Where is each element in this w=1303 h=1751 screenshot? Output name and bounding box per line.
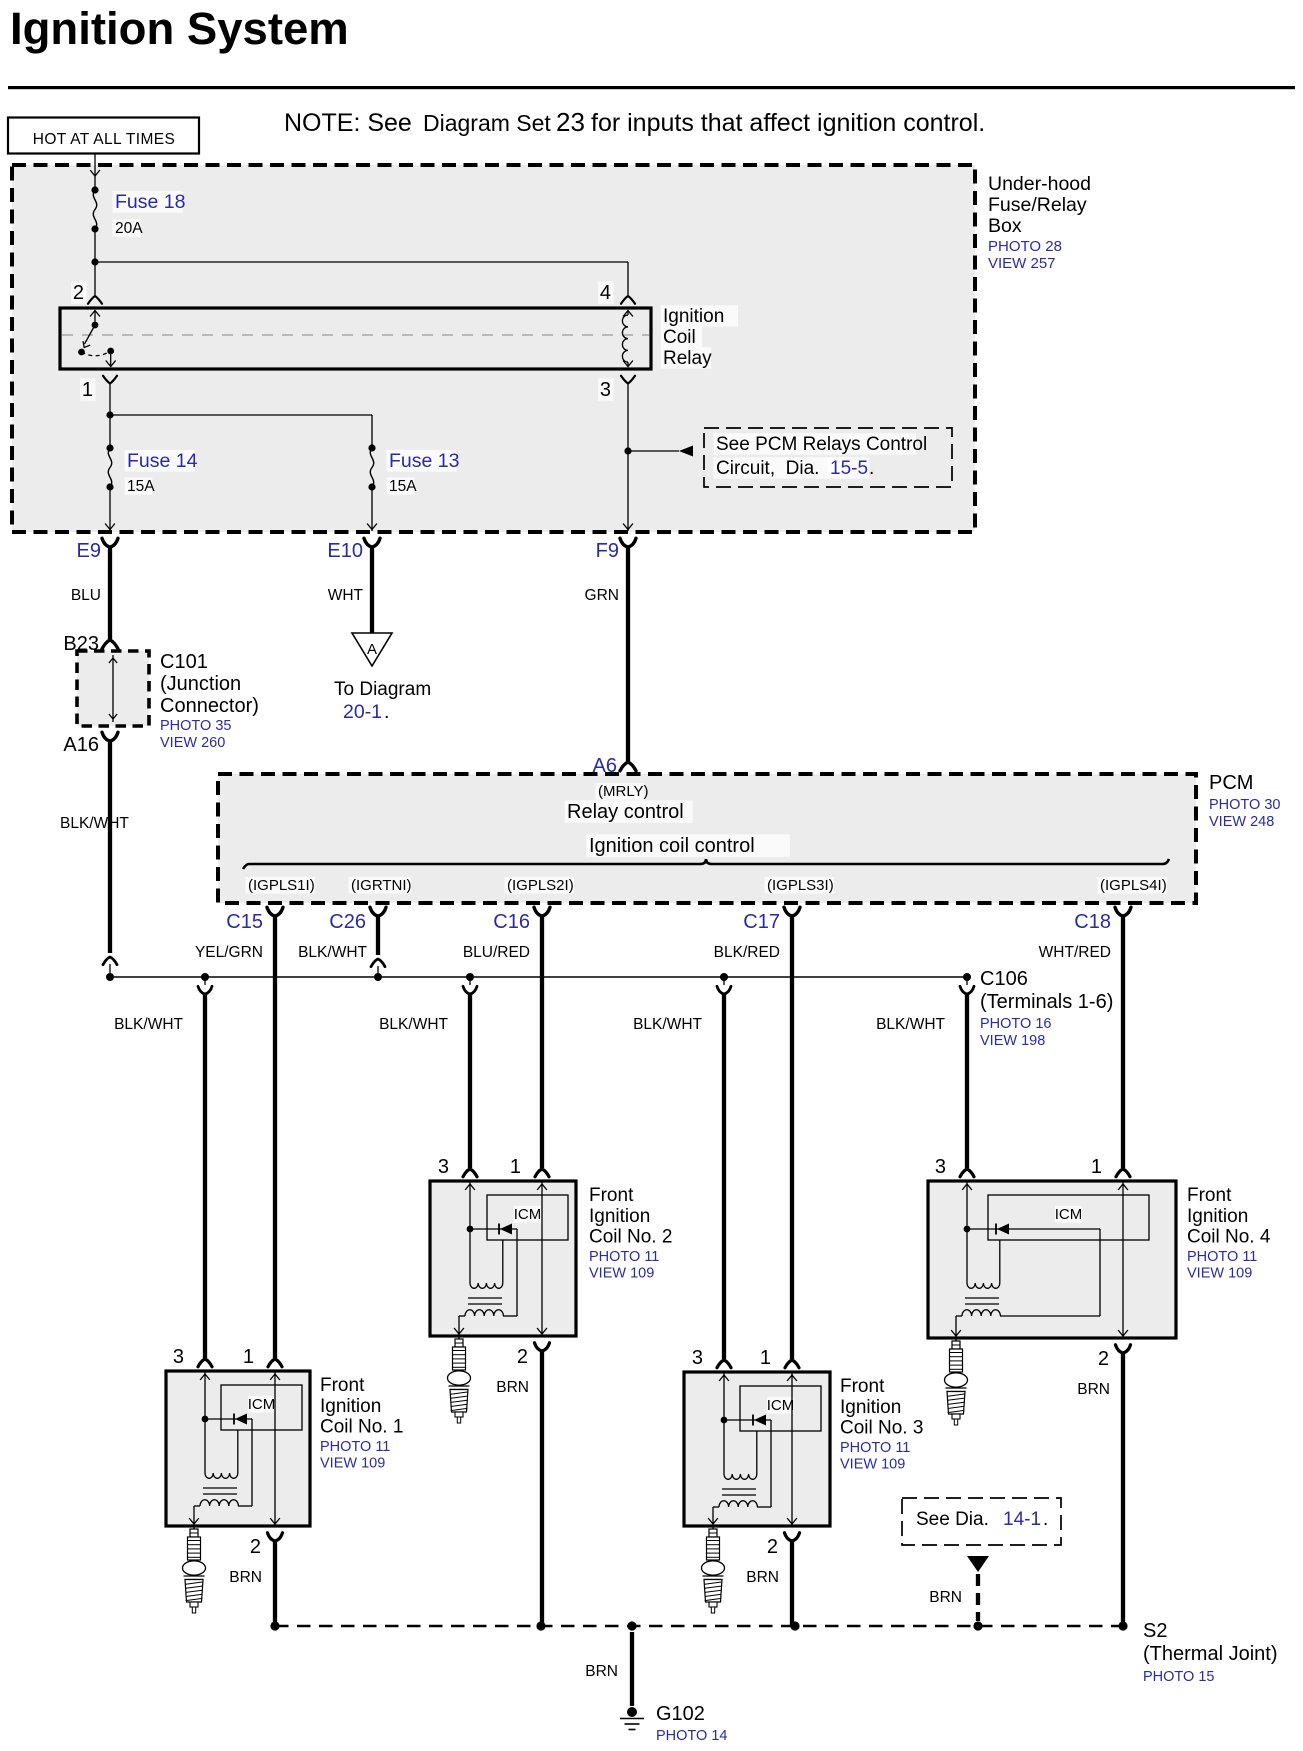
svg-text:Fuse 13: Fuse 13 bbox=[389, 450, 459, 472]
spark plug P3 bbox=[702, 1526, 725, 1613]
coil 1 transformer core bbox=[203, 1488, 237, 1494]
coil 2 photo/view reference bbox=[589, 1249, 659, 1282]
svg-text:VIEW 109: VIEW 109 bbox=[589, 1266, 654, 1282]
bus junction bbox=[374, 973, 382, 981]
fuse 18 label bbox=[113, 191, 186, 237]
to diagram 20-1 label bbox=[334, 679, 431, 723]
relay pin 3 connector bbox=[621, 376, 635, 384]
relay pin 3 label bbox=[598, 378, 613, 401]
svg-text:VIEW 260: VIEW 260 bbox=[160, 735, 225, 751]
coil 2 pin 3 label bbox=[438, 1156, 449, 1178]
coil 4 pin 1 label bbox=[1091, 1156, 1102, 1178]
svg-text:(IGPLS3I): (IGPLS3I) bbox=[767, 877, 834, 894]
bus junction bbox=[963, 973, 971, 981]
coil 3 photo/view reference bbox=[840, 1440, 910, 1473]
coil 2 name label bbox=[589, 1185, 672, 1248]
svg-text:C18: C18 bbox=[1074, 911, 1111, 933]
ignition coil control bus line bbox=[243, 859, 1169, 869]
svg-text:VIEW 257: VIEW 257 bbox=[988, 255, 1056, 272]
spark plug P1 bbox=[183, 1526, 206, 1613]
wire label GRN bbox=[585, 587, 619, 604]
wire label BRN (G102) bbox=[585, 1663, 618, 1680]
svg-text:A16: A16 bbox=[63, 734, 99, 756]
svg-text:Ignition: Ignition bbox=[840, 1397, 901, 1418]
PCM pin function label (IGRTNI) bbox=[349, 877, 412, 894]
PCM pin function label (IGPLS3I) bbox=[765, 877, 834, 894]
coil 4 pin 2 connector bbox=[1116, 1345, 1131, 1353]
wire label BLK/WHT (branch 4) bbox=[876, 1016, 945, 1033]
coil 3 pin 3 label bbox=[692, 1347, 703, 1369]
ground G102 label bbox=[656, 1703, 705, 1725]
svg-text:PHOTO 11: PHOTO 11 bbox=[1187, 1249, 1257, 1265]
relay switch bbox=[78, 311, 116, 368]
ground G102 symbol bbox=[620, 1707, 644, 1730]
wire label WHT bbox=[328, 587, 364, 604]
svg-text:ICM: ICM bbox=[767, 1397, 795, 1414]
svg-text:BLU/RED: BLU/RED bbox=[463, 944, 530, 961]
svg-text:E10: E10 bbox=[327, 540, 363, 562]
svg-text:(IGPLS4I): (IGPLS4I) bbox=[1100, 877, 1167, 894]
thermal bus junction bbox=[973, 1621, 982, 1630]
thermal bus junction bbox=[536, 1621, 545, 1630]
svg-text:YEL/GRN: YEL/GRN bbox=[195, 944, 263, 961]
wire E10 (WHT) bbox=[370, 547, 374, 633]
svg-text:VIEW 109: VIEW 109 bbox=[840, 1457, 905, 1473]
svg-text:VIEW 198: VIEW 198 bbox=[980, 1033, 1045, 1049]
svg-text:2: 2 bbox=[250, 1536, 261, 1558]
front ignition coil No. 2 box bbox=[430, 1181, 576, 1336]
thermal bus junction bbox=[627, 1621, 636, 1630]
svg-text:3: 3 bbox=[438, 1156, 449, 1178]
relay pin 4 connector bbox=[621, 296, 635, 304]
PCM label bbox=[1209, 772, 1253, 794]
svg-text:F9: F9 bbox=[596, 540, 619, 562]
svg-text:(MRLY): (MRLY) bbox=[598, 783, 649, 800]
wire C17 to coil 3 pin 1 (BLK/RED) bbox=[790, 916, 794, 1359]
wire BRN from coil 4 pin 2 bbox=[1121, 1353, 1125, 1626]
svg-text:Relay: Relay bbox=[663, 348, 712, 369]
wire label BLK/WHT (branch 2) bbox=[379, 1016, 448, 1033]
svg-text:BLU: BLU bbox=[71, 587, 101, 604]
svg-text:Coil: Coil bbox=[663, 327, 696, 348]
bus junction bbox=[201, 973, 209, 981]
ICM module U4 bbox=[988, 1195, 1149, 1240]
C101 label bbox=[160, 651, 259, 717]
svg-text:PHOTO 11: PHOTO 11 bbox=[840, 1440, 910, 1456]
svg-text:PHOTO 11: PHOTO 11 bbox=[589, 1249, 659, 1265]
svg-text:4: 4 bbox=[600, 282, 611, 304]
svg-text:Under-hood: Under-hood bbox=[988, 173, 1091, 195]
wire label BRN (coil 4) bbox=[1077, 1381, 1110, 1398]
coil 4 internal wire: pin 3 to ICM junction bbox=[962, 1181, 972, 1232]
coil 2 transformer core bbox=[468, 1298, 502, 1304]
svg-text:VIEW 248: VIEW 248 bbox=[1209, 814, 1274, 830]
front ignition coil No. 4 box bbox=[928, 1181, 1176, 1338]
relay internal link (dashed) bbox=[62, 334, 649, 336]
wire relay pin 1 to fuse 14 bbox=[106, 384, 113, 449]
svg-text:Front: Front bbox=[1187, 1185, 1232, 1206]
wire label BLU bbox=[71, 587, 101, 604]
coil 3 primary winding bbox=[724, 1420, 757, 1479]
G102 photo reference bbox=[656, 1728, 727, 1744]
svg-text:for inputs that affect ignitio: for inputs that affect ignition control. bbox=[591, 109, 985, 137]
connector F9 bbox=[596, 538, 636, 562]
svg-text:BLK/WHT: BLK/WHT bbox=[298, 944, 367, 961]
coil 1 pin 3 label bbox=[173, 1346, 184, 1368]
wire relay pin 3 to F9 bbox=[623, 384, 633, 532]
coil 1 name label bbox=[320, 1375, 403, 1438]
svg-text:Coil No. 1: Coil No. 1 bbox=[320, 1417, 403, 1438]
coil 2 pin 1 connector bbox=[535, 1169, 549, 1177]
wire label BLK/WHT bbox=[298, 944, 367, 961]
svg-text:3: 3 bbox=[600, 379, 611, 401]
coil 2 pin 3 connector bbox=[463, 1169, 477, 1177]
diode D3 bbox=[724, 1415, 771, 1426]
svg-text:Ignition: Ignition bbox=[663, 306, 724, 327]
wire A16 to coil ground bus (BLK/WHT) bbox=[108, 741, 112, 953]
svg-text:VIEW 109: VIEW 109 bbox=[1187, 1266, 1252, 1282]
wire BRN from coil 1 pin 2 bbox=[273, 1541, 277, 1626]
wire BLK/WHT to coil 1 pin 3 bbox=[203, 994, 207, 1358]
ignition coil control label bbox=[587, 834, 790, 857]
svg-text:Ignition coil control: Ignition coil control bbox=[589, 835, 755, 857]
C106 photo/view reference bbox=[980, 1016, 1051, 1049]
see dia 14-1 note box bbox=[902, 1498, 1061, 1545]
wire F9 to A6 (GRN) bbox=[626, 547, 630, 762]
svg-text:VIEW 109: VIEW 109 bbox=[320, 1456, 385, 1472]
title underline bar bbox=[8, 86, 1295, 89]
relay pin 4 label bbox=[598, 281, 613, 304]
wire label YEL/GRN bbox=[195, 944, 263, 961]
coil 3 pin 1 label bbox=[760, 1347, 771, 1369]
svg-text:Coil No. 2: Coil No. 2 bbox=[589, 1227, 672, 1248]
svg-text:Fuse 18: Fuse 18 bbox=[115, 191, 185, 213]
connector A16 bbox=[63, 732, 118, 756]
fuse 14 label bbox=[125, 450, 198, 495]
coil 1 pin 1 connector bbox=[268, 1359, 282, 1367]
coil 4 pin 1 connector bbox=[1116, 1169, 1130, 1177]
wire BRN from coil 2 pin 2 bbox=[540, 1351, 544, 1626]
coil 3 name label bbox=[840, 1376, 923, 1439]
wire BRN from coil 3 pin 2 bbox=[790, 1541, 794, 1626]
svg-text:BLK/WHT: BLK/WHT bbox=[114, 1016, 183, 1033]
svg-text:(Terminals 1-6): (Terminals 1-6) bbox=[980, 991, 1113, 1013]
svg-text:(IGPLS2I): (IGPLS2I) bbox=[507, 877, 574, 894]
under-hood fuse/relay box bbox=[12, 165, 975, 532]
wire E9 to B23 (BLU) bbox=[108, 547, 112, 640]
svg-text:Front: Front bbox=[320, 1375, 365, 1396]
coil 3 pin 2 connector bbox=[785, 1533, 800, 1541]
fuse 18 (20A) bbox=[91, 186, 98, 232]
svg-text:C101: C101 bbox=[160, 651, 208, 673]
connector E9 bbox=[77, 538, 118, 562]
svg-text:Front: Front bbox=[589, 1185, 634, 1206]
under-hood fuse/relay box label bbox=[988, 173, 1091, 237]
coil 2 pin 2 connector bbox=[535, 1343, 550, 1351]
svg-text:15-5: 15-5 bbox=[830, 458, 868, 479]
connector B23 bbox=[63, 633, 118, 655]
svg-text:Circuit, Dia.: Circuit, Dia. bbox=[716, 458, 819, 479]
svg-text:3: 3 bbox=[935, 1156, 946, 1178]
svg-text:.: . bbox=[1043, 1509, 1048, 1530]
svg-text:PHOTO 16: PHOTO 16 bbox=[980, 1016, 1051, 1032]
svg-text:PCM: PCM bbox=[1209, 772, 1253, 794]
coil 4 primary winding bbox=[967, 1229, 1000, 1288]
PCM box bbox=[218, 774, 1196, 903]
svg-text:Connector): Connector) bbox=[160, 695, 259, 717]
coil 1 pin 2 connector bbox=[268, 1533, 283, 1541]
svg-text:BRN: BRN bbox=[585, 1663, 618, 1680]
coil 1 internal wire: pin 3 to ICM junction bbox=[200, 1371, 210, 1422]
svg-text:(IGPLS1I): (IGPLS1I) bbox=[248, 877, 315, 894]
wire BLK/WHT to coil 4 pin 3 bbox=[965, 994, 969, 1168]
relay pin 2 label bbox=[71, 281, 86, 304]
junction connector C101 bbox=[77, 651, 149, 726]
svg-text:PHOTO 35: PHOTO 35 bbox=[160, 718, 231, 734]
svg-text:15A: 15A bbox=[389, 478, 417, 495]
svg-text:.: . bbox=[869, 458, 874, 479]
svg-text:3: 3 bbox=[692, 1347, 703, 1369]
wire C18 to coil 4 pin 1 (WHT/RED) bbox=[1121, 916, 1125, 1168]
coil 3 pin 3 connector bbox=[717, 1360, 731, 1368]
coil 1 pin 1 label bbox=[243, 1346, 254, 1368]
svg-text:BLK/WHT: BLK/WHT bbox=[379, 1016, 448, 1033]
svg-text:Coil No. 3: Coil No. 3 bbox=[840, 1418, 923, 1439]
relay pin 1 connector bbox=[103, 376, 117, 384]
fuse 13 (15A) bbox=[368, 444, 375, 490]
coil 1 photo/view reference bbox=[320, 1439, 390, 1472]
bus junction bbox=[466, 973, 474, 981]
ICM module U1 bbox=[221, 1385, 302, 1430]
svg-text:(IGRTNI): (IGRTNI) bbox=[351, 877, 412, 894]
connector C15 bbox=[226, 907, 283, 933]
svg-text:HOT AT ALL TIMES: HOT AT ALL TIMES bbox=[33, 131, 176, 148]
PCM pin function label (IGPLS1I) bbox=[246, 877, 315, 894]
wire label BRN (see dia) bbox=[929, 1589, 962, 1606]
under-hood box photo/view reference bbox=[988, 238, 1062, 272]
coil 4 secondary winding bbox=[951, 1310, 1000, 1338]
PCM pin A6 function label (MRLY) relay control bbox=[565, 783, 693, 823]
connector C17 bbox=[743, 907, 800, 933]
diode D1 bbox=[205, 1414, 252, 1425]
svg-text:(Thermal Joint): (Thermal Joint) bbox=[1143, 1643, 1277, 1665]
svg-text:14-1: 14-1 bbox=[1003, 1509, 1041, 1530]
coil 3 pin 1 connector bbox=[785, 1360, 799, 1368]
connector C16 bbox=[493, 907, 550, 933]
coil 1 pin 2 label bbox=[250, 1536, 261, 1558]
wire C16 to coil 2 pin 1 (BLU/RED) bbox=[540, 916, 544, 1168]
wire fuse 13 to E10 bbox=[367, 487, 377, 531]
ICM module U2 bbox=[487, 1195, 568, 1240]
wire label BLK/WHT (A16) bbox=[60, 815, 129, 832]
wire fuse 18 to relay pin 2 bbox=[91, 229, 98, 295]
fuse 13 label bbox=[387, 450, 460, 495]
svg-text:NOTE: See: NOTE: See bbox=[284, 109, 412, 137]
svg-text:BRN: BRN bbox=[1077, 1381, 1110, 1398]
connector C18 bbox=[1074, 907, 1131, 933]
thermal bus junction bbox=[1118, 1621, 1127, 1630]
splice S2 (thermal joint) label bbox=[1143, 1620, 1277, 1665]
coil 2 internal wire: pin 1 feed-through bbox=[537, 1181, 547, 1336]
connector C106 label bbox=[980, 968, 1113, 1013]
svg-text:2: 2 bbox=[767, 1536, 778, 1558]
wire label BLK/WHT (branch 3) bbox=[633, 1016, 702, 1033]
front ignition coil No. 3 box bbox=[684, 1372, 830, 1526]
coil 3 secondary winding bbox=[708, 1501, 757, 1526]
fuse 14 (15A) bbox=[106, 444, 113, 490]
inline connector C106 terminal (branch 1) bbox=[198, 977, 212, 994]
svg-text:PHOTO 14: PHOTO 14 bbox=[656, 1728, 727, 1744]
coil 1 wire: diode to secondary bbox=[238, 1419, 252, 1506]
inline connector C106 terminal (branch 3) bbox=[717, 977, 731, 994]
svg-text:PHOTO 28: PHOTO 28 bbox=[988, 238, 1062, 255]
connector E10 bbox=[327, 538, 380, 562]
wire C15 to coil 1 pin 1 (YEL/GRN) bbox=[273, 916, 277, 1358]
diagram title bbox=[10, 3, 349, 54]
coil 4 photo/view reference bbox=[1187, 1249, 1257, 1282]
svg-text:To Diagram: To Diagram bbox=[334, 679, 431, 700]
off-page arrow A (to diagram 20-1) bbox=[352, 633, 392, 666]
svg-text:PHOTO 11: PHOTO 11 bbox=[320, 1439, 390, 1455]
connector C26 bbox=[329, 907, 386, 933]
svg-text:C26: C26 bbox=[329, 911, 366, 933]
svg-text:WHT: WHT bbox=[328, 587, 364, 604]
svg-text:3: 3 bbox=[173, 1346, 184, 1368]
svg-text:2: 2 bbox=[73, 282, 84, 304]
coil 2 pin 1 label bbox=[510, 1156, 521, 1178]
wire label BLK/WHT (branch 1) bbox=[114, 1016, 183, 1033]
coil 2 pin 2 label bbox=[517, 1346, 528, 1368]
svg-text:(Junction: (Junction bbox=[160, 673, 241, 695]
svg-text:See PCM Relays Control: See PCM Relays Control bbox=[716, 434, 927, 455]
wire fuse 18 junction to relay pin 4 bbox=[95, 262, 628, 295]
coil 1 internal wire: pin 1 feed-through bbox=[270, 1371, 280, 1526]
coil 4 wire: diode to secondary bbox=[1000, 1229, 1100, 1316]
svg-text:Relay control: Relay control bbox=[567, 801, 684, 823]
coil 3 internal wire: pin 1 feed-through bbox=[787, 1372, 797, 1526]
svg-text:Coil No. 4: Coil No. 4 bbox=[1187, 1227, 1271, 1248]
HOT AT ALL TIMES box bbox=[8, 118, 199, 154]
svg-text:PHOTO 30: PHOTO 30 bbox=[1209, 797, 1280, 813]
svg-text:Ignition: Ignition bbox=[1187, 1206, 1248, 1227]
svg-text:Diagram Set: Diagram Set bbox=[423, 110, 551, 136]
diode D4 bbox=[967, 1224, 1100, 1235]
coil 2 primary winding bbox=[470, 1229, 503, 1288]
coil 4 pin 3 connector bbox=[960, 1169, 974, 1177]
svg-text:Ignition System: Ignition System bbox=[10, 3, 349, 54]
svg-text:ICM: ICM bbox=[248, 1396, 276, 1413]
C101 photo/view reference bbox=[160, 718, 231, 751]
svg-text:Ignition: Ignition bbox=[320, 1396, 381, 1417]
svg-text:BRN: BRN bbox=[229, 1569, 262, 1586]
svg-text:Fuse/Relay: Fuse/Relay bbox=[988, 194, 1087, 216]
front ignition coil No. 1 box bbox=[166, 1371, 310, 1526]
coil 4 pin 3 label bbox=[935, 1156, 946, 1178]
svg-text:PHOTO 15: PHOTO 15 bbox=[1143, 1669, 1214, 1685]
PCM photo/view reference bbox=[1209, 797, 1280, 830]
inline connector C106 terminal (branch 2) bbox=[463, 977, 477, 994]
relay pin 2 connector bbox=[88, 296, 102, 304]
ignition coil relay box bbox=[60, 308, 651, 369]
svg-text:GRN: GRN bbox=[585, 587, 619, 604]
svg-text:BRN: BRN bbox=[496, 1379, 529, 1396]
svg-text:1: 1 bbox=[510, 1156, 521, 1178]
S2 photo reference bbox=[1143, 1669, 1214, 1685]
inline connector C106 terminal (branch 4) bbox=[960, 977, 974, 994]
coil 4 transformer core bbox=[965, 1298, 999, 1304]
wire BLK/WHT to coil 2 pin 3 bbox=[468, 994, 472, 1168]
wire label BRN (coil 1) bbox=[229, 1569, 262, 1586]
svg-text:23: 23 bbox=[556, 107, 585, 137]
svg-text:1: 1 bbox=[1091, 1156, 1102, 1178]
svg-text:ICM: ICM bbox=[514, 1206, 542, 1223]
svg-text:.: . bbox=[384, 701, 389, 723]
wire junction to fuse 13 bbox=[110, 415, 372, 448]
svg-text:1: 1 bbox=[760, 1347, 771, 1369]
thermal bus junction bbox=[270, 1621, 279, 1630]
svg-text:2: 2 bbox=[1098, 1348, 1109, 1370]
wire from see dia 14-1 (BRN) bbox=[967, 1556, 989, 1621]
relay pin 1 label bbox=[80, 378, 95, 401]
svg-text:WHT/RED: WHT/RED bbox=[1039, 944, 1111, 961]
svg-text:BLK/WHT: BLK/WHT bbox=[876, 1016, 945, 1033]
coil 4 internal wire: pin 1 feed-through bbox=[1118, 1181, 1128, 1338]
wire BLK/WHT to coil 3 pin 3 bbox=[722, 994, 726, 1359]
wire label BLU/RED bbox=[463, 944, 530, 961]
coil 3 wire: diode to secondary bbox=[757, 1420, 771, 1507]
coil 3 transformer core bbox=[722, 1489, 756, 1495]
see PCM relays control note box bbox=[704, 428, 952, 487]
coil 1 primary winding bbox=[205, 1419, 238, 1478]
svg-text:G102: G102 bbox=[656, 1703, 705, 1725]
svg-text:Ignition: Ignition bbox=[589, 1206, 650, 1227]
coil 2 internal wire: pin 3 to ICM junction bbox=[465, 1181, 475, 1232]
coil 1 pin 3 connector bbox=[198, 1359, 212, 1367]
wire label BLK/RED bbox=[714, 944, 780, 961]
svg-text:A: A bbox=[367, 641, 377, 658]
diode D2 bbox=[470, 1224, 517, 1235]
coil 2 secondary winding bbox=[454, 1310, 503, 1336]
svg-text:Front: Front bbox=[840, 1376, 885, 1397]
spark plug P4 bbox=[945, 1338, 968, 1425]
svg-text:BRN: BRN bbox=[929, 1589, 962, 1606]
svg-text:1: 1 bbox=[243, 1346, 254, 1368]
coil 4 pin 2 label bbox=[1098, 1348, 1109, 1370]
svg-text:S2: S2 bbox=[1143, 1620, 1167, 1642]
svg-text:BLK/WHT: BLK/WHT bbox=[60, 815, 129, 832]
bus junction bbox=[106, 973, 114, 981]
PCM pin function label (IGPLS4I) bbox=[1098, 877, 1167, 894]
connector A6 bbox=[593, 755, 636, 777]
svg-text:C106: C106 bbox=[980, 968, 1028, 990]
svg-text:BLK/WHT: BLK/WHT bbox=[633, 1016, 702, 1033]
coil 2 wire: diode to secondary bbox=[503, 1229, 517, 1316]
svg-text:15A: 15A bbox=[127, 478, 155, 495]
wire fuse 14 to E9 bbox=[105, 487, 115, 531]
PCM pin function label (IGPLS2I) bbox=[505, 877, 574, 894]
svg-text:Fuse 14: Fuse 14 bbox=[127, 450, 198, 472]
coil 3 internal wire: pin 3 to ICM junction bbox=[719, 1372, 729, 1423]
wire label BRN (coil 2) bbox=[496, 1379, 529, 1396]
svg-text:BRN: BRN bbox=[746, 1569, 779, 1586]
wire C26 to ground bus bbox=[371, 916, 385, 977]
branch to PCM relays control note bbox=[628, 446, 693, 457]
inline connector at A16 bus end bbox=[103, 957, 117, 977]
svg-text:C16: C16 bbox=[493, 911, 530, 933]
coil 3 pin 2 label bbox=[767, 1536, 778, 1558]
ICM module U3 bbox=[740, 1386, 821, 1431]
note text bbox=[284, 107, 985, 137]
